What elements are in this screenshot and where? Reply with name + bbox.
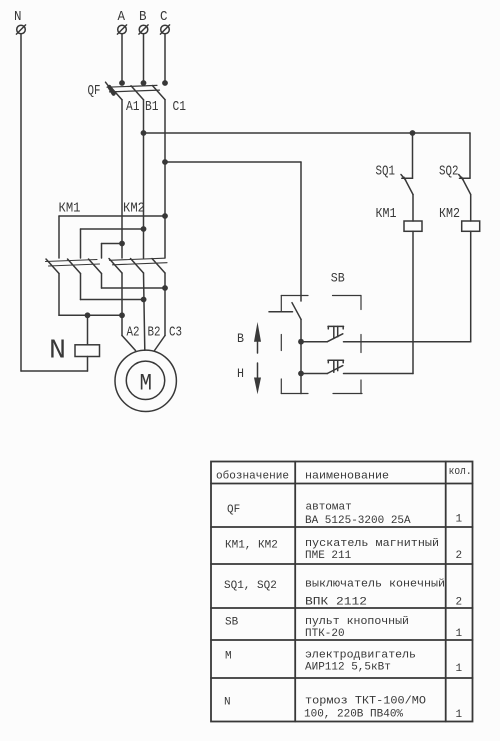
terminal A: [117, 25, 126, 34]
wire KM1 coil bottom: [412, 231, 414, 373]
svg-text:SQ1, SQ2: SQ1, SQ2: [224, 580, 277, 592]
arrow down: [254, 363, 261, 394]
svg-text:QF: QF: [227, 504, 240, 516]
svg-text:пускатель магнитный: пускатель магнитный: [305, 538, 439, 550]
node B2 join: [141, 297, 147, 303]
wire motor lead C3: [164, 273, 166, 336]
terminal C: [160, 25, 169, 34]
contactor KM1 main contacts: [46, 259, 102, 274]
node B control tap: [141, 130, 147, 136]
wire N vertical: [20, 34, 22, 371]
wire phase B top: [143, 34, 145, 83]
SB common contact blade: [292, 303, 301, 320]
svg-text:C: C: [160, 9, 168, 25]
brake coil N wire: [87, 315, 89, 345]
node A to KM1: [119, 241, 125, 247]
circuit breaker QF: [106, 80, 168, 100]
svg-text:В: В: [237, 331, 244, 346]
wire KM1 pole2 output: [80, 274, 82, 300]
QF pole A fixed contact dot: [119, 80, 125, 86]
node C to KM1: [162, 213, 168, 219]
QF pole B blade: [131, 86, 144, 100]
svg-text:В2: В2: [148, 326, 161, 341]
pushbutton station SB dashed box: [281, 296, 362, 394]
svg-text:ПТК-20: ПТК-20: [305, 628, 345, 640]
svg-text:1: 1: [456, 663, 463, 675]
motor M inner circle: [126, 361, 164, 399]
svg-text:выключатель конечный: выключатель конечный: [305, 579, 445, 591]
terminal N: [16, 25, 25, 34]
wire motor lead A2: [121, 273, 123, 336]
wire phase A middle: [121, 100, 123, 258]
wire SB common vertical: [300, 319, 302, 393]
svg-text:2: 2: [456, 597, 463, 609]
svg-text:ВПК 2112: ВПК 2112: [305, 597, 367, 609]
svg-text:2: 2: [456, 550, 463, 562]
QF pole C blade: [153, 86, 166, 100]
wire KM2 coil bottom: [470, 231, 472, 341]
svg-text:ПМЕ 211: ПМЕ 211: [305, 550, 352, 562]
parts table: [211, 462, 473, 722]
KM2 blade 3: [152, 259, 165, 274]
QF pole A blade: [110, 86, 123, 100]
KM2 linkage bar: [110, 258, 165, 260]
KM1 linkage bar: [46, 260, 98, 262]
KM2 blade 2: [131, 259, 144, 274]
svg-text:SB: SB: [331, 271, 345, 286]
svg-text:N: N: [224, 697, 231, 709]
brake coil N rectangle: [75, 345, 100, 357]
node C control tap: [162, 159, 168, 165]
limit switch SQ2: [459, 175, 471, 222]
svg-text:наименование: наименование: [305, 471, 389, 483]
svg-text:С3: С3: [169, 326, 182, 341]
wire N to brake bottom: [21, 370, 88, 372]
wire phase C top: [164, 34, 166, 83]
wire B to KM1 pole2: [81, 228, 144, 230]
node brake tap: [85, 312, 91, 318]
svg-text:М: М: [225, 651, 232, 663]
wire SB drop: [300, 162, 302, 301]
node SQ1 branch: [410, 130, 416, 136]
svg-text:А2: А2: [127, 326, 140, 341]
SB common contact stub: [269, 311, 293, 313]
wire phase C middle: [164, 100, 166, 258]
motor M outer circle: [115, 350, 176, 411]
pushbutton V (up): [301, 326, 471, 341]
wire phase B middle: [143, 100, 145, 258]
coil KM2: [462, 221, 480, 231]
svg-text:КМ2: КМ2: [123, 202, 145, 217]
wire motor lead B2: [144, 273, 145, 350]
svg-text:B: B: [139, 9, 147, 25]
svg-text:КМ2: КМ2: [439, 207, 460, 222]
svg-text:C1: C1: [173, 100, 187, 115]
wire phase A top: [121, 34, 123, 83]
svg-text:SQ2: SQ2: [439, 165, 459, 180]
limit switch SQ1: [401, 133, 413, 221]
wire control return C: [165, 161, 301, 163]
svg-text:A1: A1: [126, 100, 140, 115]
svg-text:КМ1: КМ1: [376, 207, 397, 222]
svg-text:1: 1: [456, 514, 463, 526]
coil KM1: [404, 221, 422, 231]
wire KM1 pole3 output: [101, 274, 103, 289]
svg-text:A: A: [118, 9, 126, 25]
svg-text:М: М: [140, 371, 153, 397]
wire SQ2 drop: [469, 133, 471, 178]
svg-text:1: 1: [456, 709, 463, 721]
wire A to KM1 pole3: [102, 243, 123, 245]
node C3 join: [162, 285, 168, 291]
svg-text:автомат: автомат: [306, 502, 352, 514]
svg-text:QF: QF: [88, 84, 101, 99]
svg-text:АИР112 5,5кВт: АИР112 5,5кВт: [305, 662, 391, 674]
svg-text:Н: Н: [237, 366, 244, 381]
QF pole C fixed contact dot: [162, 80, 168, 86]
svg-text:тормоз ТКТ-100/МО: тормоз ТКТ-100/МО: [305, 696, 426, 708]
wire control feed B: [144, 132, 471, 134]
KM1 blade 1: [46, 259, 59, 274]
pushbutton N (down): [301, 360, 413, 373]
node button N: [298, 371, 304, 377]
svg-text:SQ1: SQ1: [376, 165, 396, 180]
svg-text:КМ1, КМ2: КМ1, КМ2: [225, 540, 278, 552]
KM1 blade 3: [89, 259, 102, 274]
QF pole B fixed contact dot: [141, 80, 147, 86]
svg-text:N: N: [49, 337, 66, 367]
table text: [216, 466, 472, 721]
svg-text:КМ1: КМ1: [59, 202, 81, 217]
svg-text:ВА 5125-3200 25А: ВА 5125-3200 25А: [305, 515, 411, 527]
svg-text:электродвигатель: электродвигатель: [305, 650, 416, 662]
contactor KM2 main contacts: [109, 258, 167, 273]
svg-text:1: 1: [456, 628, 463, 640]
node B to KM1: [141, 226, 147, 232]
KM2 blade 1: [109, 259, 122, 274]
svg-text:N: N: [14, 9, 22, 25]
svg-text:кол.: кол.: [449, 466, 472, 478]
wire C to KM1 pole1: [59, 215, 165, 217]
terminal B: [139, 25, 148, 34]
node button V: [298, 339, 304, 345]
wire KM1 pole1 output: [58, 274, 60, 316]
svg-text:B1: B1: [145, 100, 159, 115]
KM1 blade 2: [68, 259, 81, 274]
brake coil N bottom wire: [87, 357, 89, 372]
node A2 join: [119, 312, 125, 318]
svg-text:SB: SB: [225, 617, 239, 629]
arrow up: [254, 322, 261, 353]
svg-text:обозначение: обозначение: [216, 470, 289, 483]
QF linkage bar: [107, 85, 157, 87]
QF handle tick: [106, 82, 110, 87]
svg-text:пульт кнопочный: пульт кнопочный: [305, 616, 409, 628]
svg-text:100, 220В ПВ40%: 100, 220В ПВ40%: [304, 709, 403, 721]
